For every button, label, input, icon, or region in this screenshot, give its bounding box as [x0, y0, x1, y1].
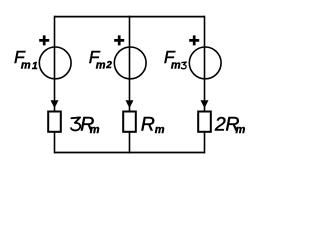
svg-text:m: m: [155, 124, 165, 136]
wire branch 3 lower: [204, 132, 206, 153]
svg-text:m: m: [236, 124, 246, 136]
bottom rail wire: [55, 152, 205, 154]
flux arrowhead branch 3: [201, 100, 209, 108]
svg-text:m: m: [90, 124, 100, 136]
plus sign branch 1: [39, 35, 49, 45]
reluctance 2R_m rectangle: [198, 112, 211, 132]
svg-text:m: m: [171, 60, 181, 72]
label F_m3 subscript digit 3 : custom flat-top: [181, 62, 186, 69]
svg-text:R: R: [141, 114, 155, 136]
top rail wire: [55, 16, 205, 18]
svg-text:2: 2: [105, 60, 112, 71]
plus sign branch 3: [189, 35, 199, 45]
reluctance 3R_m rectangle: [48, 112, 61, 132]
MMF source F_m1: [39, 47, 71, 79]
reluctance R_m rectangle: [123, 112, 136, 132]
svg-text:1: 1: [32, 60, 38, 72]
wire branch 2: [129, 16, 131, 111]
svg-text:m: m: [21, 60, 31, 72]
wire branch 3: [204, 16, 206, 111]
wire branch 1 lower: [54, 132, 56, 153]
flux arrowhead branch 2: [126, 100, 134, 108]
MMF source F_m2: [114, 47, 146, 79]
flux arrowhead branch 1: [51, 100, 59, 108]
wire branch 2 lower: [129, 132, 131, 153]
wire branch 1: [54, 16, 56, 111]
MMF source F_m3: [189, 47, 221, 79]
plus sign branch 2: [114, 35, 124, 45]
label 3R_m : custom flat-top 3: [71, 117, 80, 130]
svg-text:m: m: [96, 60, 106, 72]
